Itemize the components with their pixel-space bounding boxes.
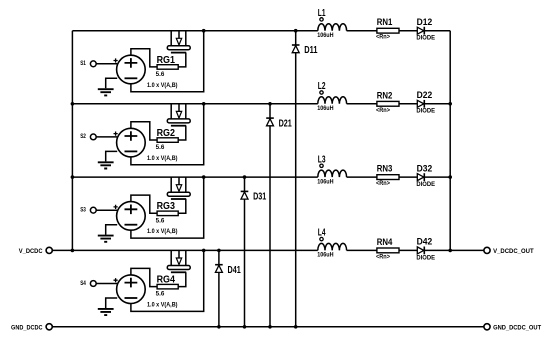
diode D22	[417, 100, 424, 107]
controlled source E4	[117, 275, 146, 304]
wire S3 to source input	[96, 209, 117, 211]
wire D21 branch to GND rail	[269, 104, 271, 327]
node left bus junction	[71, 102, 75, 106]
switch M2 bottom plate	[171, 125, 186, 127]
diode D41	[215, 264, 223, 266]
wire source top to RG2	[131, 122, 157, 140]
wire source bottom / block bottom edge	[131, 104, 204, 165]
node block output junction	[202, 29, 206, 33]
terminal GND_DCDC	[46, 324, 52, 330]
wire source to ground	[106, 225, 118, 235]
wire switch to RG3	[178, 199, 186, 213]
svg-text:RG1: RG1	[157, 55, 176, 66]
controlled source E1	[117, 55, 146, 84]
svg-text:D22: D22	[417, 90, 433, 100]
wire V_DCDC_OUT terminal lead	[450, 249, 484, 251]
node left bus junction	[71, 175, 75, 179]
svg-text:1.0 x V(A,B): 1.0 x V(A,B)	[147, 303, 178, 309]
wire S4 to source input	[96, 283, 117, 285]
node input polarity + mark	[114, 278, 118, 282]
resistor RN2	[377, 101, 399, 106]
ground	[98, 162, 114, 168]
svg-text:5.6: 5.6	[156, 292, 165, 298]
node right bus junction	[448, 175, 452, 179]
wire source top to RG4	[131, 268, 157, 286]
svg-text:106uH: 106uH	[317, 253, 333, 259]
inductor L2	[318, 97, 347, 104]
svg-text:1.0 x V(A,B): 1.0 x V(A,B)	[147, 229, 178, 235]
svg-text:1.0 x V(A,B): 1.0 x V(A,B)	[147, 156, 178, 162]
switch M4 bottom plate	[171, 271, 186, 273]
ground	[98, 309, 114, 315]
switch M4 leads	[171, 250, 186, 265]
wire D12 to right bus	[424, 30, 450, 32]
resistor RG3	[157, 211, 178, 216]
wire RN1 to D12	[399, 30, 417, 32]
terminal S2	[90, 134, 96, 140]
node right bus junction	[448, 102, 452, 106]
wire L3 to RN3	[347, 176, 377, 178]
node D41 rail junction	[217, 249, 221, 253]
wire switch to RG1	[178, 53, 186, 67]
switch M4 control arrow	[178, 250, 180, 258]
wire RN4 to D42	[399, 249, 417, 251]
svg-text:5.6: 5.6	[156, 218, 165, 224]
terminal V_DCDC_OUT	[484, 247, 490, 253]
wire RN2 to D22	[399, 103, 417, 105]
controlled source E2	[117, 128, 146, 157]
svg-text:<Rn>: <Rn>	[376, 254, 390, 260]
diode D11	[292, 44, 300, 46]
wire right bus vertical V_DCDC_OUT net	[449, 31, 451, 251]
wire row 1 switch-node rail	[72, 30, 317, 32]
wire S2 to source input	[96, 136, 117, 138]
resistor RN3	[377, 175, 399, 180]
terminal S3	[90, 207, 96, 213]
ground	[98, 89, 114, 95]
wire switch to RG2	[178, 126, 186, 140]
node D31 GND junction	[243, 325, 247, 329]
svg-text:D21: D21	[279, 118, 293, 129]
resistor RG2	[157, 138, 178, 143]
svg-text:5.6: 5.6	[156, 72, 165, 78]
switch M3 bottom plate	[171, 198, 186, 200]
svg-text:GND_DCDC: GND_DCDC	[11, 325, 43, 332]
switch M2 top plate	[167, 119, 190, 123]
wire D41 branch to GND rail	[218, 250, 220, 326]
diode D21	[266, 117, 274, 119]
node D21 GND junction	[268, 325, 272, 329]
svg-text:106uH: 106uH	[317, 179, 333, 185]
wire L4 to RN4	[347, 249, 377, 251]
switch M1 leads	[171, 31, 186, 46]
svg-text:V_DCDC_OUT: V_DCDC_OUT	[493, 248, 534, 255]
wire source bottom / block bottom edge	[131, 31, 204, 92]
wire switch to RG4	[178, 272, 186, 286]
node input polarity + mark	[114, 205, 118, 209]
svg-text:DIODE: DIODE	[416, 182, 435, 188]
svg-text:GND_DCDC_OUT: GND_DCDC_OUT	[493, 325, 542, 332]
wire source top to RG1	[131, 49, 157, 67]
svg-text:<Rn>: <Rn>	[376, 181, 390, 187]
wire source to ground	[106, 298, 118, 308]
wire source to ground	[106, 78, 118, 88]
node input polarity + mark	[114, 58, 118, 62]
svg-text:D31: D31	[253, 192, 267, 203]
svg-text:106uH: 106uH	[317, 33, 333, 39]
wire S1 to source input	[96, 63, 117, 65]
wire GND_DCDC rail	[52, 326, 484, 328]
svg-text:RG3: RG3	[157, 201, 176, 212]
svg-text:V_DCDC: V_DCDC	[19, 248, 43, 255]
svg-text:1.0 x V(A,B): 1.0 x V(A,B)	[147, 83, 178, 89]
node left bus junction	[71, 249, 75, 253]
node D31 rail junction	[243, 175, 247, 179]
wire L2 to RN2	[347, 103, 377, 105]
wire L1 to RN1	[347, 30, 377, 32]
svg-text:D11: D11	[304, 45, 318, 56]
terminal V_DCDC	[46, 247, 52, 253]
ground	[98, 236, 114, 242]
switch M3 top plate	[167, 192, 190, 196]
pin 1 marker L1	[320, 18, 323, 21]
svg-text:S4: S4	[80, 281, 86, 287]
svg-text:S3: S3	[80, 208, 86, 214]
wire D11 branch to GND rail	[295, 31, 297, 327]
inductor L4	[318, 243, 347, 250]
svg-text:DIODE: DIODE	[416, 255, 435, 261]
node D21 rail junction	[268, 102, 272, 106]
wire row 4 switch-node rail	[72, 249, 317, 251]
wire source bottom / block bottom edge	[131, 250, 204, 311]
svg-text:S2: S2	[80, 134, 86, 140]
terminal S1	[90, 61, 96, 67]
wire left bus vertical V_DCDC net	[71, 31, 73, 251]
switch M3 control arrow	[178, 177, 180, 185]
svg-text:D41: D41	[228, 265, 242, 276]
wire RN3 to D32	[399, 176, 417, 178]
svg-text:D12: D12	[417, 17, 433, 27]
node block output junction	[202, 249, 206, 253]
wire D32 to right bus	[424, 176, 450, 178]
svg-text:S1: S1	[80, 61, 86, 67]
pin 1 marker L2	[320, 91, 323, 94]
diode D31	[241, 190, 249, 192]
svg-text:<Rn>: <Rn>	[376, 108, 390, 114]
switch M1 top plate	[167, 46, 190, 50]
svg-text:RN1: RN1	[377, 17, 393, 27]
svg-text:RN2: RN2	[377, 90, 393, 100]
node block output junction	[202, 175, 206, 179]
switch M1 control arrow	[178, 31, 180, 39]
resistor RG1	[157, 65, 178, 70]
svg-text:DIODE: DIODE	[416, 109, 435, 115]
node block output junction	[202, 102, 206, 106]
resistor RN4	[377, 248, 399, 253]
switch M4 top plate	[167, 266, 190, 270]
svg-text:D42: D42	[417, 237, 433, 247]
wire D22 to right bus	[424, 103, 450, 105]
wire row 2 switch-node rail	[72, 103, 317, 105]
diode D42	[417, 247, 424, 254]
inductor L1	[318, 24, 347, 31]
svg-text:D32: D32	[417, 163, 433, 173]
node input polarity + mark	[114, 132, 118, 136]
svg-text:106uH: 106uH	[317, 106, 333, 112]
svg-text:DIODE: DIODE	[416, 36, 435, 42]
diode D12	[417, 27, 424, 34]
terminal GND_DCDC_OUT	[484, 324, 490, 330]
inductor L3	[318, 170, 347, 177]
terminal S4	[90, 281, 96, 287]
pin 1 marker L3	[320, 164, 323, 167]
resistor RG4	[157, 284, 178, 289]
svg-text:RG2: RG2	[157, 128, 176, 139]
switch M3 leads	[171, 177, 186, 192]
switch M2 leads	[171, 104, 186, 119]
controlled source E3	[117, 202, 146, 231]
wire source bottom / block bottom edge	[131, 177, 204, 238]
svg-text:<Rn>: <Rn>	[376, 35, 390, 41]
svg-text:RG4: RG4	[157, 275, 176, 286]
wire D42 to right bus	[424, 249, 450, 251]
node right bus junction	[448, 249, 452, 253]
node D11 GND junction	[294, 325, 298, 329]
switch M2 control arrow	[178, 104, 180, 112]
wire source to ground	[106, 151, 118, 161]
svg-text:RN4: RN4	[377, 237, 393, 247]
svg-text:RN3: RN3	[377, 164, 393, 174]
switch M1 bottom plate	[171, 52, 186, 54]
resistor RN1	[377, 28, 399, 33]
wire row 3 switch-node rail	[72, 176, 317, 178]
pin 1 marker L4	[320, 237, 323, 240]
diode D32	[417, 174, 424, 181]
node D41 GND junction	[217, 325, 221, 329]
node D11 rail junction	[294, 29, 298, 33]
wire V_DCDC terminal lead	[52, 249, 72, 251]
svg-text:5.6: 5.6	[156, 145, 165, 151]
wire source top to RG3	[131, 195, 157, 213]
wire D31 branch to GND rail	[244, 177, 246, 327]
